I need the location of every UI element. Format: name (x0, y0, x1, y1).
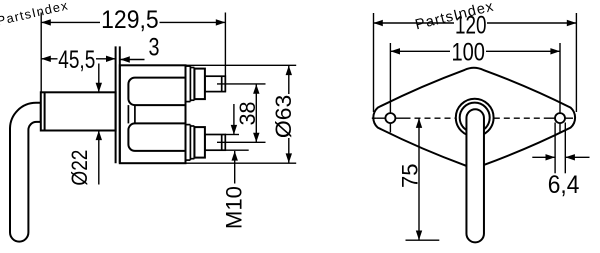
top terminal washer (193, 68, 195, 101)
center connector between cylinders (127, 105, 129, 123)
svg-text:3: 3 (149, 34, 160, 62)
lower inner cylinder (128, 123, 185, 150)
body housing box (120, 65, 186, 163)
svg-text:75: 75 (397, 164, 422, 189)
lever rod (front view) (466, 109, 484, 242)
svg-text:129,5: 129,5 (101, 6, 159, 34)
dim 129,5 (40, 13, 42, 93)
extension line bottom stud center (for 38) (217, 141, 266, 143)
boss outer circle (456, 99, 494, 137)
dim M10 lower arrow + label (234, 151, 236, 184)
dim 75 (418, 118, 420, 240)
svg-text:38: 38 (235, 102, 260, 126)
bottom terminal flange strip (186, 125, 195, 161)
dim 100 (390, 50, 450, 52)
right mounting hole (555, 113, 565, 123)
svg-text:100: 100 (451, 39, 485, 67)
mounting plate (edge-on, thickness 3) (115, 46, 117, 163)
dim M10 upper arrow (233, 104, 235, 135)
vertical line through right hole (100 ext) (559, 43, 561, 134)
hole cross tick left (377, 117, 405, 119)
upper inner cylinder (128, 78, 185, 106)
hole cross tick right (546, 117, 573, 119)
bottom terminal washer (193, 126, 195, 159)
top terminal stud M10 (205, 76, 225, 91)
boss middle circle (460, 103, 490, 133)
svg-text:M10: M10 (221, 186, 246, 229)
dim 3 (plate thickness) (120, 59, 144, 61)
top terminal flange strip (186, 66, 195, 102)
diamond mounting plate (373, 68, 575, 167)
extension line bottom stud top edge (for M10) (225, 134, 239, 136)
extension line bottom stud bottom edge (for M10) (222, 149, 249, 151)
extension line bottom of body (for O63) (186, 162, 297, 164)
handle lever (side view) (10, 103, 41, 242)
left mounting hole (385, 113, 395, 123)
extension line top stud center (for 38) (217, 83, 266, 85)
svg-text:Ø63: Ø63 (271, 95, 296, 139)
dim 120 (373, 13, 375, 112)
extension line top of body (for O63) (186, 64, 297, 66)
vertical line through left hole (100 ext) (389, 43, 391, 132)
top terminal nut (194, 69, 205, 100)
svg-text:6,4: 6,4 (548, 171, 580, 199)
svg-text:120: 120 (455, 12, 487, 40)
dashed horizontal centerline (372, 117, 377, 119)
dim 45,5 (41, 58, 57, 60)
dim 38 (255, 84, 257, 142)
svg-text:Ø22: Ø22 (67, 150, 92, 186)
dim O63 (288, 66, 290, 95)
bottom terminal stud M10 (205, 135, 225, 151)
bottom terminal nut (194, 127, 205, 158)
cylinder end chamfer line (44, 92, 46, 130)
shaft cylinder O22 (41, 92, 116, 130)
svg-text:45,5: 45,5 (58, 46, 95, 74)
dim 6,4 (554, 123, 556, 174)
dim O22 (98, 64, 100, 93)
